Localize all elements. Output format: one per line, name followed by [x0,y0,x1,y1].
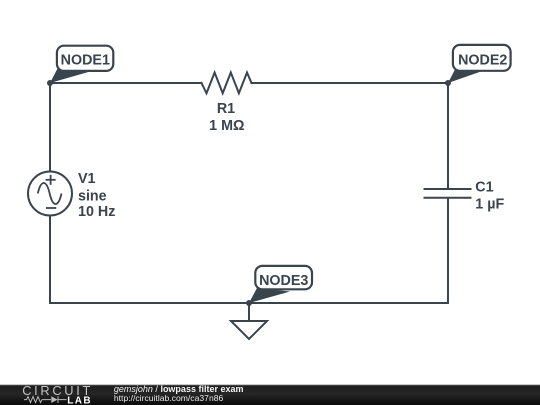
wire V1 - terminal to bottom net (left lower) [49,216,51,304]
node NODE1 flag tail [50,69,90,84]
svg-text:V1: V1 [78,171,96,187]
ground [231,321,267,339]
svg-text:C1: C1 [475,180,493,196]
node NODE3 flag tail [249,288,290,303]
footer bar top highlight line [0,384,540,385]
svg-text:1 MΩ: 1 MΩ [209,118,244,134]
wire NODE2 to C1 (right upper) [447,83,449,189]
svg-text:sine: sine [78,189,107,205]
svg-text:R1: R1 [217,101,235,117]
node NODE1 junction dot [47,80,53,86]
node NODE2 junction dot [445,80,451,86]
node NODE2 flag tail [448,69,481,84]
footer bar background [0,385,540,405]
wire C1 to bottom net (right lower) [447,199,449,303]
logo resistor squiggle and wire [24,397,51,403]
wire NODE1 to R1 (top left) [50,82,202,84]
wire NODE1 to V1 + terminal (left upper) [49,83,51,172]
svg-text:NODE1: NODE1 [61,53,110,69]
ground stub wire [248,303,250,321]
node NODE1 flag box [57,46,113,71]
wire R1 to NODE2 (top right) [252,82,449,84]
svg-text:NODE2: NODE2 [458,53,507,69]
svg-text:LAB: LAB [67,395,92,405]
logo wire to LAB [59,399,67,401]
node NODE2 flag box [453,45,511,71]
capacitor C1 plates [425,188,471,190]
node NODE3 flag box [255,266,312,289]
resistor R1 [202,73,252,94]
svg-text:1 µF: 1 µF [475,196,504,212]
V1 sine wave glyph [38,183,62,204]
voltage source V1 circle [28,172,72,216]
wire bottom net NODE3 [50,302,448,304]
V1 plus terminal mark [46,179,56,181]
node NODE3 junction dot [246,300,252,306]
svg-text:10 Hz: 10 Hz [78,204,115,220]
svg-text:http://circuitlab.com/ca37n86: http://circuitlab.com/ca37n86 [114,393,224,403]
logo diode cathode bar [57,396,59,403]
logo diode triangle [51,396,57,403]
svg-text:NODE3: NODE3 [259,273,308,289]
V1 minus terminal mark [46,207,56,209]
